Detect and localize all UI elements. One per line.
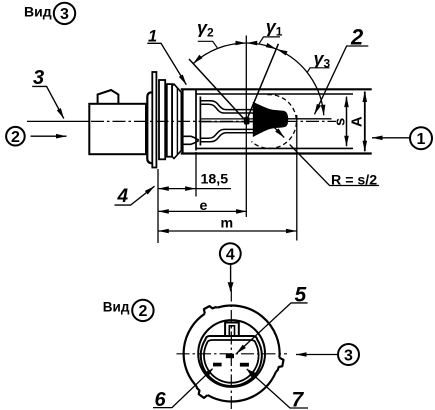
- gamma1 line: [248, 44, 279, 118]
- bulb tube inner top: [197, 93, 354, 95]
- svg-text:Вид: Вид: [24, 4, 52, 20]
- callout 2 top label: [315, 24, 369, 114]
- dimension m: [158, 216, 296, 232]
- filament shield cone: [253, 103, 288, 137]
- extension line m right: [296, 115, 298, 241]
- gamma1 label: [259, 17, 282, 44]
- svg-text:m: m: [221, 216, 234, 232]
- svg-text:e: e: [200, 198, 208, 214]
- gamma3 label: [307, 49, 331, 73]
- callout 1 circle with arrow: [372, 127, 432, 149]
- callout 6 label: [153, 369, 213, 410]
- bulb tube outer bottom: [181, 152, 372, 154]
- vertical line through filament: [245, 36, 247, 218]
- extension line flange face: [157, 169, 159, 243]
- callout 4 label: [115, 186, 155, 207]
- connector key tab: [98, 90, 119, 104]
- svg-text:7: 7: [292, 389, 305, 410]
- A dimension: [348, 92, 365, 152]
- base D-shape outer: [201, 336, 262, 386]
- base D-shape inner: [204, 340, 259, 383]
- bottom view horizontal centerline: [177, 353, 288, 355]
- pinch wall right: [199, 97, 201, 146]
- flange skirt: [147, 92, 152, 163]
- upper electrode: [201, 101, 254, 113]
- center filament mark: [226, 354, 234, 358]
- svg-text:6: 6: [155, 389, 167, 410]
- left contact bar: [213, 363, 222, 367]
- R=s/2 leader and label: [290, 145, 379, 189]
- svg-text:3: 3: [33, 67, 44, 89]
- flange ring 3: [167, 84, 172, 157]
- base top tab: [225, 323, 239, 337]
- spring crown ring: [172, 84, 183, 158]
- svg-text:Вид: Вид: [103, 300, 130, 315]
- exhaust funnel: [182, 136, 199, 144]
- bottom view outer ring: [184, 306, 284, 402]
- gamma1 arc: [247, 43, 277, 49]
- svg-text:2: 2: [11, 129, 20, 146]
- svg-text:R = s/2: R = s/2: [331, 173, 377, 189]
- callout 7 label: [247, 369, 308, 410]
- dashed arc R=s/2: [252, 95, 297, 149]
- dimension e: [158, 198, 246, 214]
- svg-text:2: 2: [138, 303, 147, 320]
- right contact bar: [240, 363, 249, 367]
- gamma2 label: [197, 17, 217, 47]
- svg-text:4: 4: [226, 246, 235, 263]
- connector body: [89, 104, 146, 154]
- flange disc 2: [159, 80, 165, 159]
- filament axis double line: [201, 119, 332, 122]
- callout 2 circle with arrow: [6, 127, 66, 146]
- pinch wall left: [195, 90, 197, 151]
- dimension 18,5: [158, 171, 231, 188]
- svg-text:s: s: [332, 118, 348, 126]
- callout 3 label: [32, 67, 64, 119]
- svg-text:18,5: 18,5: [201, 171, 229, 187]
- filament junction blob: [244, 117, 250, 125]
- callout 5 label: [237, 284, 308, 354]
- svg-text:3: 3: [60, 6, 69, 23]
- bulb tube outer top: [181, 88, 372, 90]
- bulb tube inner bottom: [197, 147, 354, 149]
- callout 3 circle with arrow: [296, 344, 359, 365]
- svg-text:A: A: [348, 116, 365, 127]
- callout 1 label: [147, 28, 186, 85]
- svg-text:4: 4: [117, 186, 129, 207]
- bottom view vertical centerline: [230, 289, 232, 410]
- lower electrode: [201, 129, 254, 141]
- svg-text:1: 1: [417, 131, 426, 148]
- bottom view inner circle: [198, 320, 265, 387]
- gamma2 arc: [193, 43, 246, 64]
- view label: Вид 2: [103, 300, 154, 321]
- extension line pinch face: [195, 152, 197, 197]
- radius arrow R=s/2: [271, 124, 284, 138]
- callout 4 circle with down arrow: [220, 243, 241, 291]
- view label: Вид 3: [24, 3, 75, 24]
- flange disc: [152, 72, 156, 168]
- gamma2 line: [189, 59, 245, 120]
- s dimension: [332, 97, 348, 147]
- svg-text:3: 3: [344, 347, 353, 364]
- lamp axis centerline: [27, 120, 336, 122]
- gamma3 arc: [277, 49, 324, 115]
